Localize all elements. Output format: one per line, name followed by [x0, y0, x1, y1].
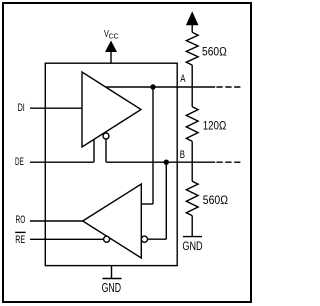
svg-text:RE: RE — [15, 234, 25, 246]
svg-text:GND: GND — [182, 241, 202, 253]
svg-text:B: B — [180, 149, 185, 161]
svg-text:DE: DE — [15, 156, 24, 168]
svg-text:560Ω: 560Ω — [203, 193, 228, 207]
svg-text:560Ω: 560Ω — [202, 44, 227, 58]
svg-text:A: A — [180, 73, 186, 85]
svg-text:DI: DI — [18, 102, 25, 114]
svg-text:CC: CC — [109, 34, 119, 41]
svg-text:120Ω: 120Ω — [203, 119, 227, 133]
svg-text:GND: GND — [102, 280, 121, 295]
svg-text:RO: RO — [16, 214, 26, 226]
